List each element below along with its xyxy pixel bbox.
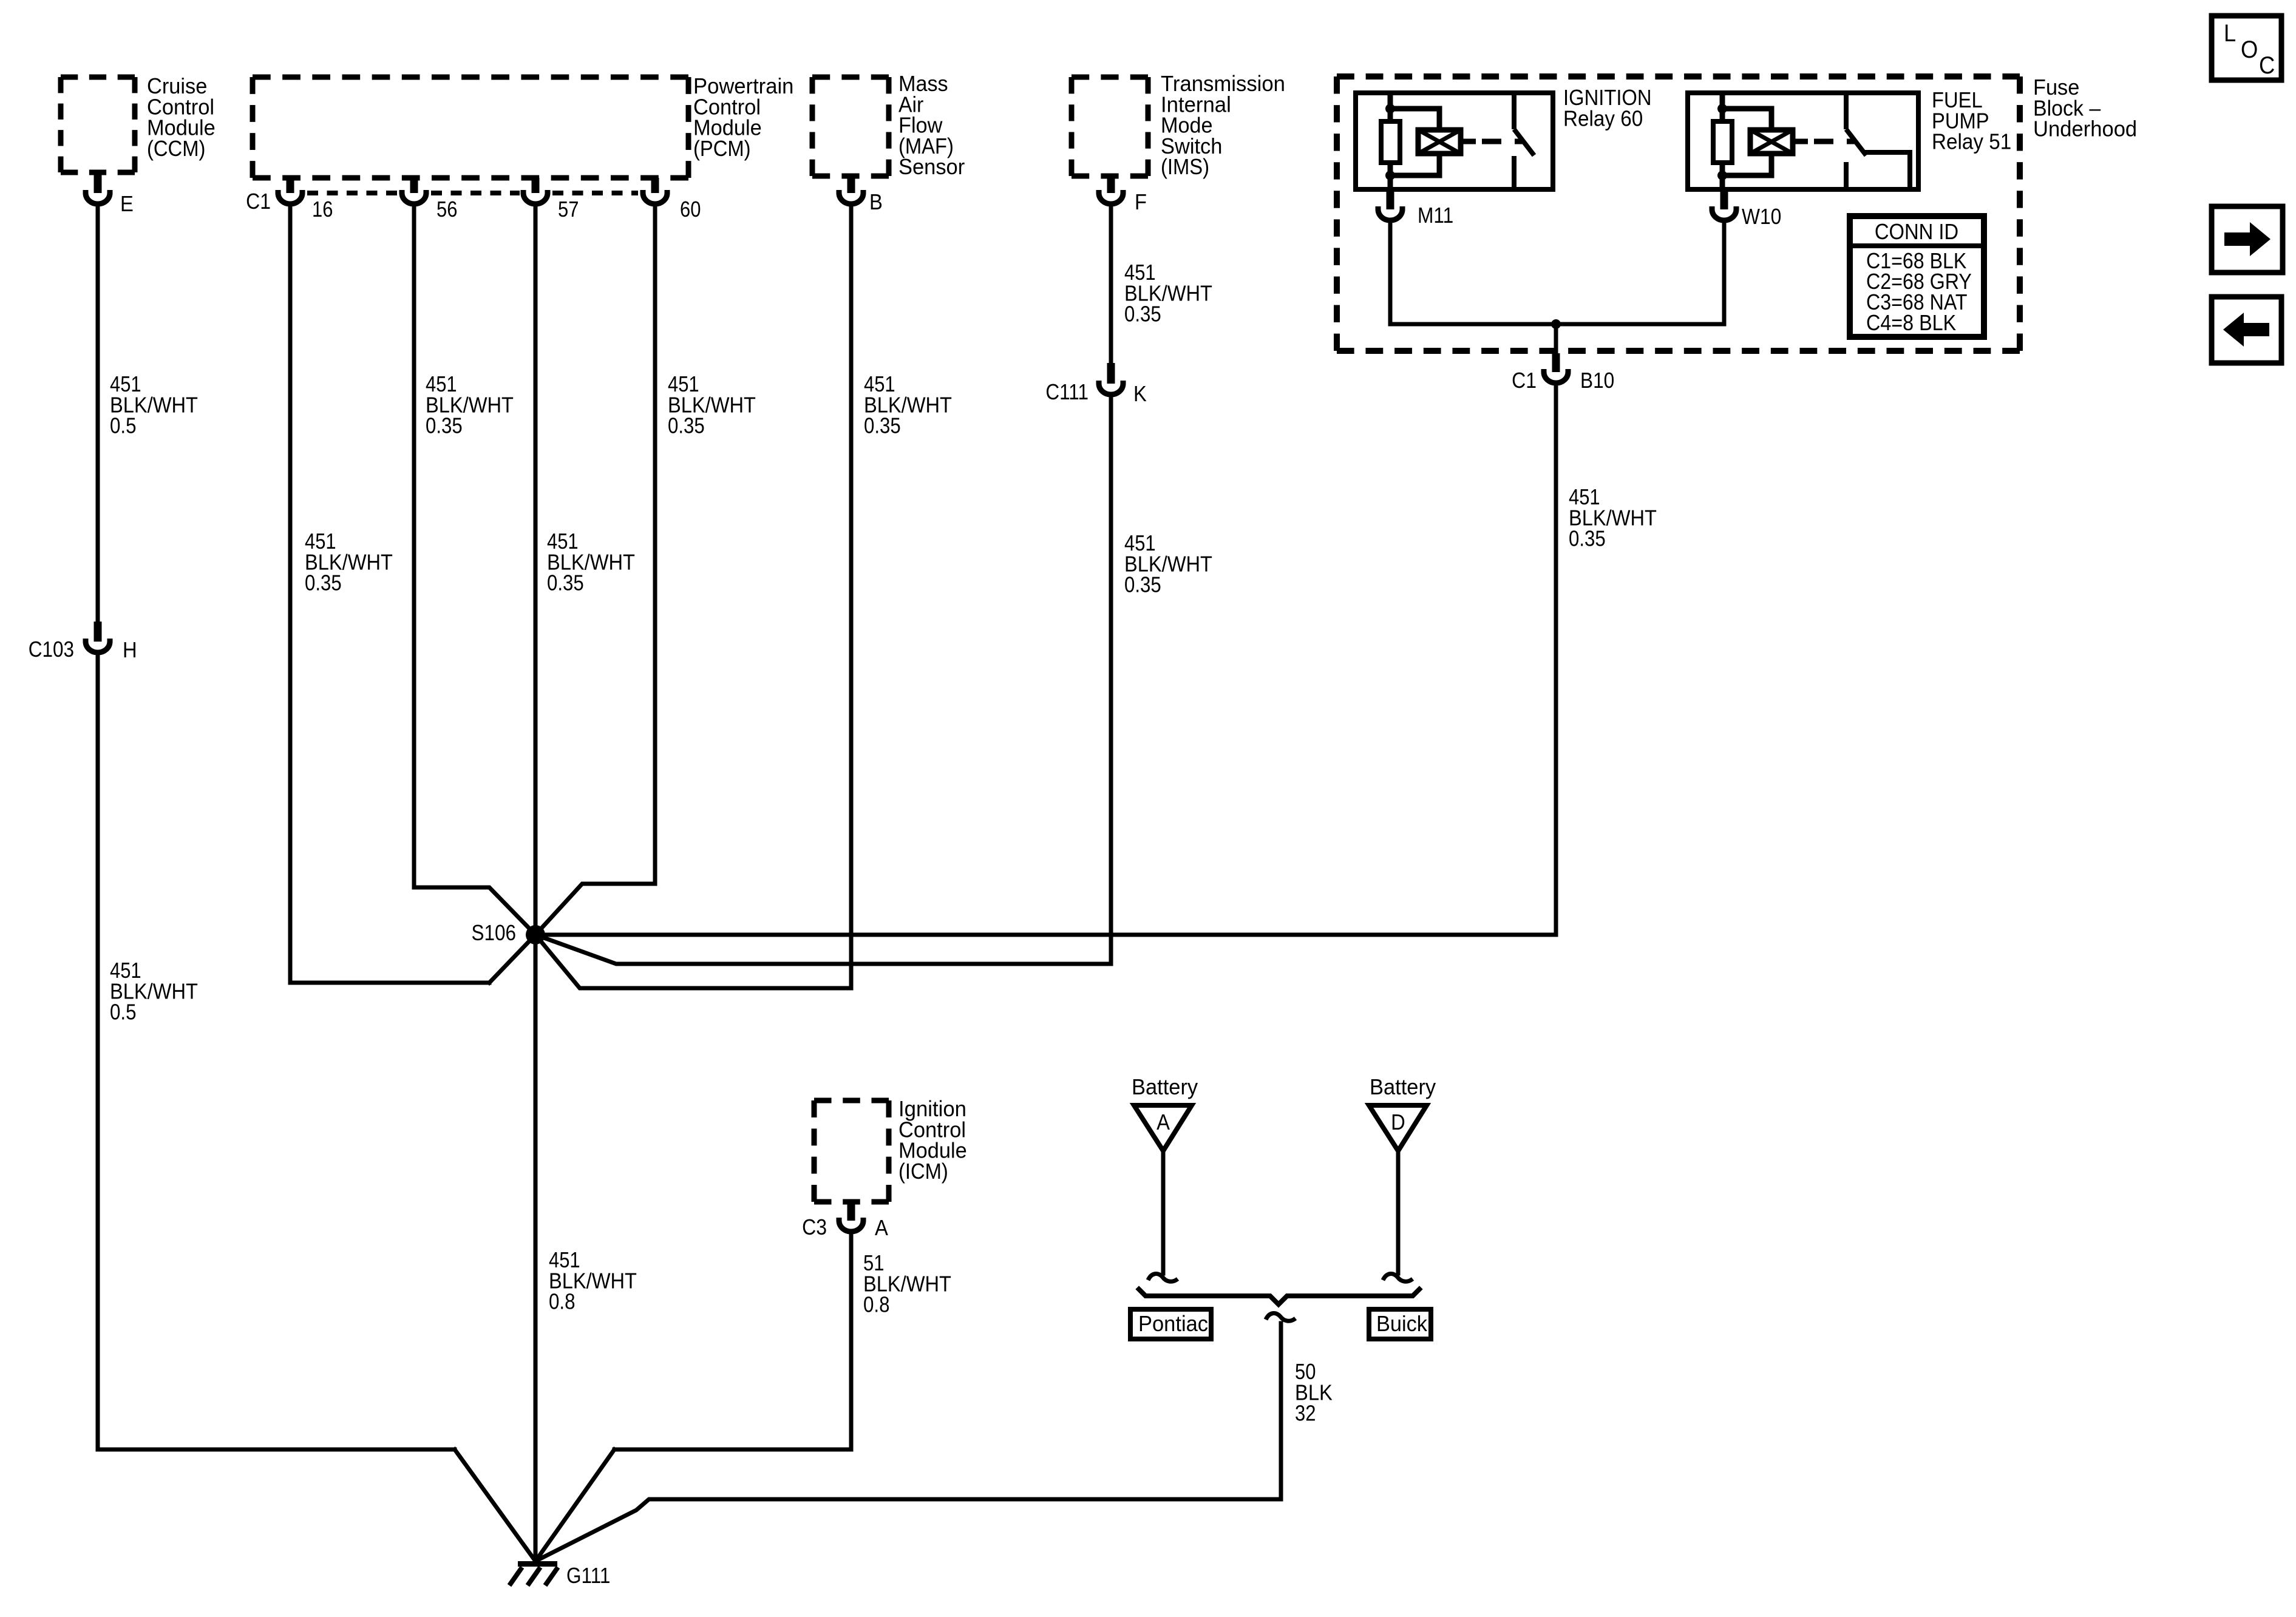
wire 451 BLK/WHT 0.8 (S106 to G111)	[534, 935, 538, 1561]
ignition relay 60 resistor	[1381, 121, 1400, 163]
fuel pump relay 51 switch	[1846, 93, 1866, 155]
battery A symbol (triangle)	[1134, 1105, 1192, 1151]
pin M11 stub	[1387, 189, 1394, 209]
label pin E	[120, 192, 134, 217]
svg-text:16: 16	[312, 198, 333, 222]
svg-text:F: F	[1135, 191, 1147, 215]
label wire 451 BLK/WHT 0.35 IMS lower	[1124, 532, 1156, 556]
label pin B	[869, 191, 883, 215]
svg-text:C103: C103	[29, 637, 74, 662]
forward arrow box	[2212, 206, 2283, 273]
label pin 57	[558, 198, 579, 222]
svg-text:Relay 51: Relay 51	[1932, 130, 2011, 154]
label IGNITION Relay 60	[1563, 86, 1652, 110]
wire 50 BLK 32 to G111	[535, 1323, 1281, 1561]
svg-text:0.5: 0.5	[110, 414, 137, 439]
label pin 56	[436, 198, 457, 222]
wire 451 BLK/WHT 0.5 (C103 H to ground run)	[98, 656, 455, 1449]
wire 451 BLK/WHT 0.35 (B10 to S106)	[535, 386, 1556, 935]
connector cup pin 60	[643, 190, 667, 204]
svg-text:0.5: 0.5	[110, 1000, 137, 1025]
pin F stub	[1107, 176, 1115, 193]
ignition control module ICM (dashed box)	[814, 1098, 889, 1103]
wire diagonal ICM branch into G111	[535, 1449, 614, 1561]
label CONN ID header	[1875, 220, 1958, 245]
pin W10 stub	[1720, 189, 1728, 209]
curl bus center tap	[1266, 1314, 1296, 1321]
letter O (LOC)	[2241, 36, 2258, 63]
svg-text:0.35: 0.35	[426, 415, 463, 439]
svg-text:K: K	[1133, 382, 1147, 407]
wire 451 BLK/WHT 0.35 (pin 16 to S106)	[290, 207, 489, 983]
svg-text:C: C	[2259, 52, 2275, 79]
backward arrow box	[2212, 297, 2281, 363]
letter L (LOC)	[2224, 19, 2236, 47]
connector cup pin 57	[523, 190, 548, 204]
svg-text:M11: M11	[1418, 203, 1453, 228]
svg-text:A: A	[875, 1216, 888, 1241]
svg-text:C1: C1	[246, 189, 271, 214]
label Pontiac	[1138, 1312, 1208, 1336]
powertrain control module PCM (dashed box)	[253, 75, 688, 80]
svg-text:S106: S106	[472, 921, 516, 945]
svg-text:57: 57	[558, 198, 579, 222]
pin E stub	[94, 172, 102, 193]
svg-text:0.35: 0.35	[305, 572, 342, 596]
wire W10 to junction	[1556, 223, 1724, 324]
svg-text:B: B	[869, 191, 883, 215]
label Battery (D)	[1370, 1075, 1436, 1099]
fuel pump relay 51 junction dot top	[1717, 104, 1727, 114]
label wire 451 BLK/WHT 0.35 IMS upper	[1124, 261, 1156, 285]
svg-text:0.8: 0.8	[549, 1290, 576, 1315]
svg-text:56: 56	[436, 198, 457, 222]
connector cup pin 16	[278, 190, 302, 204]
fuel pump relay 51 junction dot bottom	[1717, 171, 1727, 180]
wire diagonal CCM branch into G111	[455, 1449, 535, 1561]
connector cup pin E	[86, 190, 110, 204]
connector cup B10	[1544, 369, 1568, 383]
svg-text:C3: C3	[802, 1215, 827, 1239]
label C2=68 GRY	[1866, 269, 1972, 294]
label S106	[472, 921, 516, 945]
svg-text:60: 60	[680, 198, 701, 222]
label PCM text	[693, 74, 793, 98]
connector cup C3 A	[839, 1218, 863, 1232]
label C103	[29, 637, 74, 662]
label Buick	[1376, 1312, 1427, 1336]
label C4=8 BLK	[1866, 311, 1956, 335]
label pin 16	[312, 198, 333, 222]
fuel pump relay 51 resistor	[1713, 121, 1732, 163]
connector cup C103	[86, 639, 110, 653]
wire 451 BLK/WHT 0.35 (IMS F to C111)	[1109, 207, 1113, 364]
letter C (LOC)	[2259, 52, 2275, 79]
connector cup pin F	[1099, 190, 1123, 204]
label wire 451 BLK/WHT 0.5 upper	[110, 373, 141, 397]
connector C103 stub	[94, 622, 102, 642]
wire 451 BLK/WHT 0.5 (CCM E to C103)	[96, 207, 100, 623]
svg-text:Buick: Buick	[1376, 1312, 1427, 1336]
pin 60 stub	[651, 178, 659, 193]
svg-text:Underhood: Underhood	[2033, 117, 2137, 141]
svg-text:H: H	[123, 639, 137, 663]
svg-text:(CCM): (CCM)	[147, 137, 205, 161]
svg-text:0.35: 0.35	[1124, 303, 1161, 327]
connector cup pin B	[839, 190, 863, 204]
svg-text:CONN ID: CONN ID	[1875, 220, 1958, 245]
svg-text:W10: W10	[1742, 205, 1781, 229]
svg-text:A: A	[1156, 1111, 1170, 1135]
fuel pump relay 51 switch output L-wire	[1865, 152, 1910, 189]
CONN ID table	[1850, 216, 1984, 337]
label wire 451 BLK/WHT 0.8	[549, 1249, 580, 1273]
label D in triangle	[1391, 1111, 1405, 1135]
label wire 50 BLK 32	[1295, 1360, 1316, 1385]
fuel pump relay 51 box	[1688, 93, 1918, 189]
ignition relay 60 coil (box with X)	[1418, 130, 1461, 154]
wire 51 BLK/WHT 0.8 (ICM A to ground run)	[614, 1235, 851, 1449]
label wire 451 BLK/WHT 0.5 lower	[110, 959, 141, 983]
forward arrow glyph	[2224, 222, 2271, 256]
label C1=68 BLK	[1866, 249, 1967, 273]
svg-text:(PCM): (PCM)	[693, 137, 751, 161]
label W10	[1742, 205, 1781, 229]
svg-text:0.35: 0.35	[1569, 527, 1606, 552]
wire diagonal pin16 branch into S106	[489, 935, 535, 983]
connector cup C111	[1099, 381, 1123, 395]
wire 451 BLK/WHT 0.35 (pin 60 to S106)	[535, 207, 655, 935]
svg-text:C111: C111	[1045, 380, 1089, 404]
label C3=68 NAT	[1866, 290, 1968, 314]
connector cup W10	[1712, 206, 1736, 220]
backward arrow glyph	[2223, 313, 2269, 347]
svg-text:G111: G111	[566, 1564, 610, 1588]
svg-text:E: E	[120, 192, 134, 217]
LOC reference box	[2212, 16, 2281, 80]
svg-text:Pontiac: Pontiac	[1138, 1312, 1208, 1336]
fuel pump relay 51 actuation dashed line	[1793, 139, 1855, 144]
fuel pump relay 51 coil circuit wires	[1722, 93, 1771, 189]
junction dot fuse block	[1551, 319, 1561, 329]
svg-text:Sensor: Sensor	[898, 155, 965, 180]
label wire 451 BLK/WHT 0.35 pin56	[426, 373, 457, 397]
ignition relay 60 junction dot top	[1385, 104, 1395, 114]
label fuse block text	[2033, 75, 2079, 100]
svg-text:O: O	[2241, 36, 2258, 63]
battery D symbol (triangle)	[1369, 1105, 1427, 1151]
label wire 451 BLK/WHT 0.35 pin60	[668, 373, 699, 397]
label G111	[566, 1564, 610, 1588]
svg-text:(IMS): (IMS)	[1161, 155, 1209, 180]
label M11	[1418, 203, 1453, 228]
ignition relay 60 box	[1356, 93, 1553, 189]
svg-text:0.8: 0.8	[863, 1293, 890, 1318]
label ICM text	[898, 1097, 966, 1121]
svg-text:D: D	[1391, 1111, 1405, 1135]
connector C1 B10 stub	[1552, 353, 1560, 372]
connector C111 stub	[1107, 363, 1115, 384]
label pin 60	[680, 198, 701, 222]
pin B stub	[847, 176, 855, 193]
svg-text:0.35: 0.35	[1124, 574, 1161, 598]
fuel pump relay 51 coil (box with X)	[1750, 130, 1793, 154]
label pin H	[123, 639, 137, 663]
label CCM text	[147, 74, 207, 98]
wire 451 BLK/WHT 0.35 (pin 56 to S106)	[414, 207, 535, 935]
splice S106	[526, 925, 545, 944]
label pin F	[1135, 191, 1147, 215]
connector C1 dashed bar under PCM	[307, 191, 397, 195]
label C1 (PCM)	[246, 189, 271, 214]
label MAF text	[898, 72, 948, 96]
wire battery A down	[1161, 1151, 1166, 1273]
mass air flow MAF sensor (dashed box)	[812, 75, 889, 80]
label B10	[1580, 368, 1614, 393]
svg-text:L: L	[2224, 19, 2236, 47]
curl battery D wire end	[1383, 1274, 1413, 1282]
svg-text:B10: B10	[1580, 368, 1614, 393]
label FUEL PUMP Relay 51	[1932, 89, 1983, 113]
pin 57 stub	[532, 178, 540, 193]
ignition relay 60 junction dot bottom	[1385, 171, 1395, 180]
label pin A (ICM)	[875, 1216, 888, 1241]
pin 56 stub	[410, 178, 418, 193]
svg-text:Battery: Battery	[1370, 1075, 1436, 1099]
connector cup pin 56	[402, 190, 426, 204]
Pontiac tag box	[1130, 1309, 1211, 1339]
svg-text:0.35: 0.35	[547, 572, 584, 596]
connector cup M11	[1378, 206, 1402, 220]
label wire 451 BLK/WHT 0.35 pin16	[305, 530, 336, 554]
label C111	[1045, 380, 1089, 404]
label wire 451 BLK/WHT 0.35 B10	[1569, 486, 1600, 510]
wire M11 to junction	[1390, 223, 1556, 324]
svg-text:Battery: Battery	[1132, 1075, 1198, 1099]
svg-text:32: 32	[1295, 1402, 1316, 1426]
cruise control module CCM (dashed box)	[61, 75, 135, 80]
label IMS text	[1161, 72, 1285, 96]
label C1 (B10)	[1512, 368, 1537, 393]
pin A stub (ICM)	[847, 1202, 855, 1221]
label wire 451 BLK/WHT 0.35 MAF	[864, 373, 895, 397]
ground bus line with notch	[1139, 1289, 1419, 1304]
label C3	[802, 1215, 827, 1239]
svg-text:(ICM): (ICM)	[898, 1160, 948, 1184]
wire junction to B10	[1554, 324, 1558, 364]
ignition relay 60 actuation dashed line	[1461, 139, 1523, 144]
curl battery A wire end	[1148, 1274, 1178, 1282]
ignition relay 60 switch	[1514, 93, 1534, 155]
label wire 51 BLK/WHT 0.8	[863, 1252, 884, 1276]
label A in triangle	[1156, 1111, 1170, 1135]
label wire 451 BLK/WHT 0.35 pin57	[547, 530, 579, 554]
transmission internal mode switch IMS (dashed box)	[1072, 75, 1148, 80]
fuse block underhood (dashed box)	[1337, 73, 2020, 80]
label Battery (A)	[1132, 1075, 1198, 1099]
svg-text:C1: C1	[1512, 368, 1537, 393]
wire 451 BLK/WHT 0.35 (MAF B to S106)	[535, 207, 851, 988]
Buick tag box	[1369, 1309, 1431, 1339]
label pin K	[1133, 382, 1147, 407]
wire 451 BLK/WHT 0.35 (C111 K to S106)	[535, 398, 1111, 964]
svg-text:0.35: 0.35	[668, 415, 705, 439]
pin 16 stub	[287, 178, 294, 193]
wire 451 BLK/WHT 0.35 (pin 57 to S106)	[534, 207, 538, 935]
ignition relay 60 coil circuit wires	[1390, 93, 1439, 189]
svg-text:0.35: 0.35	[864, 415, 901, 439]
ground G111 symbol	[518, 1561, 557, 1567]
svg-text:Relay 60: Relay 60	[1563, 107, 1643, 131]
wire battery D down	[1396, 1151, 1401, 1273]
svg-text:C4=8 BLK: C4=8 BLK	[1866, 311, 1956, 335]
